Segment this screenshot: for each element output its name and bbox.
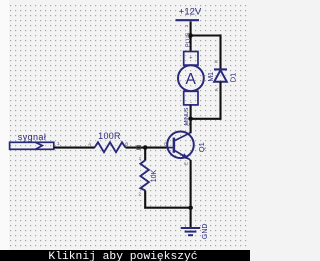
- wire diode anode down: [219, 82, 221, 120]
- junction node emitter / R2: [188, 205, 193, 210]
- node pad square (R1 pin B): [137, 146, 140, 149]
- motor M1 body circle: [178, 65, 204, 91]
- svg-text:PLUS: PLUS: [185, 32, 191, 47]
- wire diode to motor minus (horizontal): [191, 118, 222, 120]
- svg-text:10K: 10K: [151, 169, 158, 182]
- transistor Q1 (NPN): [166, 132, 194, 160]
- svg-text:+12V: +12V: [179, 6, 202, 17]
- motor M1 minus terminal box: [184, 91, 198, 105]
- wire branch to diode (horizontal): [191, 34, 222, 36]
- svg-text:Q1: Q1: [197, 142, 206, 152]
- svg-text:Kliknij aby powiększyć: Kliknij aby powiększyć: [48, 251, 197, 261]
- svg-text:K: K: [213, 60, 218, 63]
- svg-text:GND: GND: [202, 224, 209, 240]
- wire junction down to R2: [144, 148, 146, 161]
- svg-text:B: B: [164, 142, 167, 147]
- svg-text:A: A: [214, 88, 219, 91]
- power +12V rail symbol: [176, 19, 200, 21]
- wire connector to resistor R1: [54, 147, 95, 149]
- svg-text:sygnał: sygnał: [18, 132, 46, 142]
- wire R2 down: [144, 191, 146, 209]
- wire R1 to base junction: [126, 147, 167, 149]
- wire emitter down to ground: [190, 160, 192, 227]
- svg-text:+: +: [189, 56, 192, 62]
- ground symbol: [181, 228, 201, 235]
- input connector flag: [10, 142, 54, 149]
- svg-text:E: E: [184, 162, 189, 165]
- svg-text:D1: D1: [228, 73, 237, 83]
- diode D1 (flyback, cathode up): [214, 69, 227, 81]
- svg-text:100R: 100R: [98, 131, 121, 141]
- junction node base / R2: [143, 145, 148, 150]
- junction node motor minus / diode: [188, 117, 193, 122]
- wire +12V to motor PLUS: [190, 22, 192, 52]
- junction node +12V branch: [188, 33, 193, 38]
- resistor R1 100R (zigzag): [95, 142, 126, 152]
- wire down to diode cathode: [219, 34, 221, 68]
- caption bar "Kliknij aby powiekszyc": [0, 250, 250, 261]
- resistor R2 10K (vertical zigzag): [140, 160, 148, 190]
- svg-text:A: A: [88, 141, 91, 146]
- motor M1 plus terminal box: [184, 52, 198, 66]
- svg-text:A: A: [186, 71, 197, 88]
- wire R2 to emitter (horizontal): [144, 207, 190, 209]
- svg-text:M1: M1: [208, 72, 215, 82]
- svg-text:B: B: [125, 141, 128, 146]
- svg-text:MINUS: MINUS: [184, 107, 190, 125]
- wire motor minus to transistor collector: [190, 105, 192, 133]
